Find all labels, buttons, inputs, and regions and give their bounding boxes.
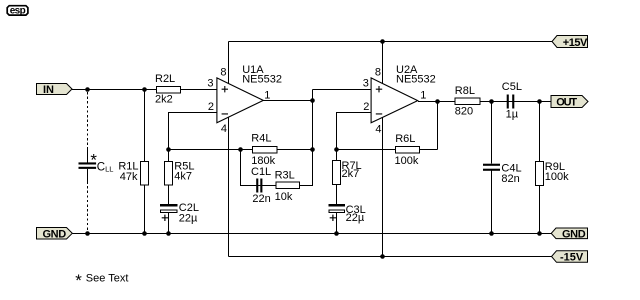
svg-text:2: 2 <box>208 101 214 113</box>
wire U1A pin2 to feedback node <box>169 113 218 150</box>
svg-text:*: * <box>90 151 97 170</box>
wire U2A pin4 down to -15V rail <box>382 117 384 256</box>
svg-text:See Text: See Text <box>86 272 129 284</box>
resistor R7L <box>333 161 341 185</box>
svg-text:1: 1 <box>264 89 270 101</box>
capacitor CLL dashed optional branch <box>87 92 89 232</box>
svg-text:22µ: 22µ <box>179 212 198 224</box>
wire feedback row U2A to R6L <box>337 149 438 151</box>
svg-text:10k: 10k <box>275 191 293 203</box>
svg-text:esp: esp <box>10 6 26 17</box>
wire C4L branch <box>491 102 493 234</box>
tag OUT <box>551 96 588 109</box>
svg-text:22n: 22n <box>252 193 270 205</box>
wire -15V rail <box>229 256 552 258</box>
tag GND right <box>551 228 587 240</box>
wire riser U1A out to U2A pin3 <box>312 90 314 150</box>
wire GND rail <box>72 233 551 235</box>
svg-text:47k: 47k <box>120 171 138 183</box>
tag +15V <box>552 36 588 49</box>
tag IN <box>37 84 73 97</box>
svg-text:-15V: -15V <box>560 252 584 264</box>
svg-text:1: 1 <box>420 90 426 102</box>
wire R1L branch <box>144 90 146 234</box>
capacitor C2L electrolytic <box>160 204 178 213</box>
wire R6L riser to output <box>437 102 439 150</box>
capacitor CLL plates <box>79 162 97 164</box>
svg-text:2k2: 2k2 <box>155 94 173 106</box>
capacitor C1L <box>256 179 258 193</box>
wire U2A pin2 to feedback node <box>337 113 372 150</box>
resistor R9L <box>536 162 544 186</box>
capacitor C4L <box>483 164 500 166</box>
capacitor C3L electrolytic <box>328 204 345 213</box>
svg-text:C1L: C1L <box>251 166 271 178</box>
C2L plus sign <box>162 215 168 221</box>
wire C1L R3L series branch <box>241 150 313 186</box>
wire U1A pin4 down to -15V rail <box>228 117 230 256</box>
svg-text:2: 2 <box>363 101 369 113</box>
svg-text:C5L: C5L <box>502 81 522 93</box>
wire U2A pin8 <box>382 42 384 85</box>
svg-text:+15V: +15V <box>563 37 588 49</box>
svg-text:820: 820 <box>455 106 473 118</box>
wire U2A output row to OUT <box>418 101 551 103</box>
svg-text:R4L: R4L <box>251 132 271 144</box>
op-amp U1A triangle <box>217 78 263 123</box>
wire +15V top rail <box>229 41 553 43</box>
tag GND left <box>37 228 73 241</box>
svg-text:NE5532: NE5532 <box>396 74 436 86</box>
resistor R5L <box>165 162 173 186</box>
svg-text:GND: GND <box>562 228 586 240</box>
svg-text:IN: IN <box>43 84 54 96</box>
wire R5L C2L branch <box>168 150 170 234</box>
svg-text:OUT: OUT <box>556 97 577 109</box>
wire R7L C3L branch <box>336 150 338 234</box>
capacitor C5L <box>507 95 509 109</box>
tag -15V <box>552 251 588 264</box>
svg-text:R8L: R8L <box>455 85 475 97</box>
svg-text:2k7: 2k7 <box>342 168 360 180</box>
svg-text:R6L: R6L <box>395 133 415 145</box>
svg-text:3: 3 <box>363 77 369 89</box>
svg-text:R3L: R3L <box>275 169 295 181</box>
op-amp U1A plus minus <box>222 86 228 114</box>
resistor R6L <box>396 147 420 154</box>
svg-text:GND: GND <box>43 228 67 240</box>
svg-text:100k: 100k <box>395 155 419 167</box>
op-amp U2A plus minus <box>376 86 382 114</box>
svg-text:*: * <box>75 271 82 290</box>
svg-text:8: 8 <box>375 66 381 78</box>
svg-text:100k: 100k <box>545 171 569 183</box>
wire U1A pin8 <box>228 42 230 85</box>
op-amp U2A triangle <box>371 78 418 123</box>
wire to U2A pin3 <box>313 89 372 91</box>
resistor R8L <box>455 98 480 105</box>
svg-text:82n: 82n <box>501 173 519 185</box>
resistor R1L <box>141 162 149 186</box>
wire U1A output <box>263 100 313 102</box>
wire R9L branch <box>539 102 541 234</box>
esp logo <box>7 6 28 17</box>
resistor R2L <box>157 87 181 94</box>
svg-text:4: 4 <box>221 123 227 135</box>
svg-text:4: 4 <box>375 124 381 136</box>
svg-text:1µ: 1µ <box>506 109 519 121</box>
svg-text:8: 8 <box>220 66 226 78</box>
wire input line IN to U1A pin3 <box>72 89 217 91</box>
C3L plus sign <box>330 215 336 221</box>
svg-text:22µ: 22µ <box>346 212 365 224</box>
svg-text:NE5532: NE5532 <box>242 74 282 86</box>
svg-text:4k7: 4k7 <box>174 171 192 183</box>
svg-text:3: 3 <box>207 77 213 89</box>
resistor R4L <box>253 147 278 154</box>
svg-text:R2L: R2L <box>155 73 175 85</box>
wire feedback row U1A <box>169 149 313 151</box>
resistor R3L <box>276 182 300 189</box>
